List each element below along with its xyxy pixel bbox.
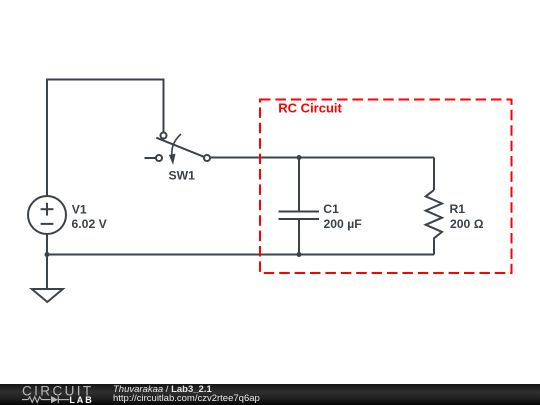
node (junction bottom) [297,252,302,257]
annotation box RC Circuit [260,100,512,274]
svg-text:200 µF: 200 µF [324,217,362,231]
node (junction battery) [45,252,50,257]
resistor R1 [426,190,442,240]
footer title [113,384,212,395]
svg-text:200 Ω: 200 Ω [450,217,484,231]
svg-text:LAB: LAB [69,395,93,405]
wire [433,240,435,255]
wire [210,157,434,159]
switch SW1 [145,133,211,166]
svg-text:RC Circuit: RC Circuit [278,101,342,116]
voltage source V1 [28,196,66,255]
svg-text:R1: R1 [450,202,466,216]
CircuitLab logo [0,384,100,405]
svg-text:6.02 V: 6.02 V [72,217,108,231]
wire [47,80,164,197]
node (junction top) [297,155,302,160]
svg-text:V1: V1 [72,202,87,216]
ground [32,255,63,303]
wire [433,158,435,191]
svg-text:C1: C1 [323,202,339,216]
svg-text:SW1: SW1 [169,168,196,182]
capacitor C1 [279,158,320,255]
footer url [113,393,260,404]
wire [47,254,434,256]
